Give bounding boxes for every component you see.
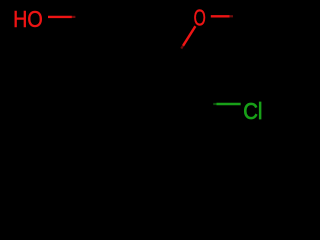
svg-text:HO: HO (13, 6, 43, 32)
bond O-C2 (black half, ring side) (171, 49, 181, 65)
bond O-CH3 midpoint fade (230, 15, 234, 17)
bond O-C2 (red half, oxygen side) (183, 26, 195, 46)
bond C3-Cl (black half, ring side) (197, 103, 217, 105)
bond O-CH3 (red half, oxygen side) (211, 15, 230, 17)
svg-text:Cl: Cl (243, 98, 262, 124)
bond CH2-O midpoint fade (72, 16, 76, 18)
bond O-C2 midpoint fade (181, 46, 183, 49)
aromatic inner double bonds (102, 66, 188, 142)
benzene ring C1-C2-C3-C4-C5-C6 (black bonds, invisible on black) (93, 59, 197, 149)
bond O-CH3 (black half, carbon side) (233, 15, 248, 17)
bond C3-Cl midpoint fade (213, 103, 216, 105)
bond CH2-O (red half, oxygen side) (48, 16, 72, 18)
bond CH2-O (black half, carbon side) (72, 16, 95, 18)
bond C3-Cl (green half, chlorine side) (217, 103, 241, 105)
bond C1-CH2 (black) (95, 17, 119, 59)
